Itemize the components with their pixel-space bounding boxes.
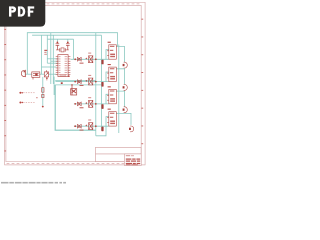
label D8 xyxy=(80,130,84,131)
sheet frame inner border xyxy=(6,6,141,162)
fuse F4 xyxy=(129,126,134,132)
wire ground loop pair stub xyxy=(53,77,55,96)
frame ruler tick dots left xyxy=(4,29,6,151)
node stray tick xyxy=(36,96,37,99)
caption text below page xyxy=(1,182,66,184)
resistor R3 under IC xyxy=(61,82,63,84)
resistor R11 gate xyxy=(101,127,103,132)
label T2 xyxy=(88,75,91,76)
wire preamp to IC xyxy=(42,66,57,68)
wire vcc rail vertical 1 xyxy=(95,33,97,136)
label D6 xyxy=(80,85,84,86)
label T4 xyxy=(88,120,91,121)
wire left drop 5 xyxy=(52,35,54,84)
junction dot J6 xyxy=(95,103,97,105)
node junction dots under IC xyxy=(68,75,70,77)
wire channel 4 xyxy=(74,125,109,127)
junction dot J2 xyxy=(95,58,97,60)
label D5 xyxy=(80,63,84,64)
triac T3 xyxy=(89,100,93,107)
triac T2 xyxy=(89,78,93,85)
capacitor C2 xyxy=(66,44,70,50)
IC U1 pins right xyxy=(68,57,70,75)
label T1 xyxy=(88,53,91,54)
label D7 xyxy=(80,107,84,108)
resistor R2 xyxy=(42,94,44,97)
wire mic link 2 xyxy=(40,73,45,75)
connector K1 xyxy=(107,42,116,59)
node dashed net label NET1 xyxy=(19,92,35,94)
capacitor C3 polarized under IC xyxy=(71,85,77,95)
wire under-ic bus row a xyxy=(55,80,96,82)
wire rail through outputs xyxy=(118,45,120,134)
capacitor C2 junction xyxy=(67,42,69,44)
title block text rows xyxy=(126,155,140,165)
IC U1 pins left xyxy=(56,57,58,75)
fuse F2 xyxy=(123,85,128,91)
wire left drop 3 xyxy=(46,35,48,63)
junction dot J4 xyxy=(95,81,97,83)
node drop end dot xyxy=(42,106,44,108)
junction dot J1 xyxy=(74,58,76,60)
wire crystal to ch1 xyxy=(73,39,75,59)
wire ground loop left xyxy=(55,85,96,130)
diac D8 xyxy=(77,124,81,128)
wire channel 2 xyxy=(56,81,109,83)
sheet frame outer border xyxy=(5,2,146,165)
title block outline xyxy=(96,147,142,161)
connector K4 xyxy=(107,109,116,127)
wire mic link 3 xyxy=(49,73,57,75)
wire ic left pin stubs xyxy=(47,58,58,60)
capacitor C1 junction xyxy=(57,42,59,44)
junction dot J3 xyxy=(74,81,76,83)
fuse F1 xyxy=(123,62,128,68)
wire out loop 2 xyxy=(116,69,124,85)
connector K3 xyxy=(107,86,116,104)
wire out loop 4 xyxy=(116,113,131,125)
junction dot J8 xyxy=(95,125,97,127)
crystal Q1 xyxy=(56,48,69,52)
wire mic link 1 xyxy=(26,73,32,75)
microphone MK1 xyxy=(21,70,25,77)
input transformer T1 xyxy=(32,72,40,80)
frame ruler tick dots right xyxy=(142,19,144,145)
resistor R1 xyxy=(42,88,44,93)
wire bottom link xyxy=(96,126,106,136)
IC U1 body xyxy=(58,55,68,77)
triac T1 xyxy=(89,56,93,63)
IC U1 inner pin labels xyxy=(59,56,68,76)
IC U1 ref label xyxy=(44,50,47,51)
diac D6 xyxy=(77,80,81,84)
wire channel 1 xyxy=(71,58,109,60)
wire top bus A xyxy=(27,33,117,74)
resistor R9 gate xyxy=(101,82,103,87)
node trimpot wiper stub xyxy=(46,77,48,81)
wire vcc rail vertical 2 xyxy=(101,35,103,130)
junction dot J5 xyxy=(74,103,76,105)
title block document field xyxy=(124,154,141,166)
wire crystal top xyxy=(48,38,74,40)
wire ic pin1 up xyxy=(72,58,74,60)
connector K2 xyxy=(107,64,116,82)
PDF badge xyxy=(0,0,45,27)
diac D5 xyxy=(77,57,81,61)
wire left drop 1 xyxy=(41,35,43,74)
wire channel 3 xyxy=(74,103,109,105)
wire under-ic bus row b xyxy=(55,84,101,86)
fuse F3 xyxy=(123,107,128,113)
diac D7 xyxy=(77,102,81,106)
wire out loop 3 xyxy=(116,91,124,107)
resistor R8 gate xyxy=(101,60,103,65)
wire top bus B xyxy=(32,34,101,36)
node dashed net label NET2 xyxy=(19,102,35,104)
triac T4 xyxy=(89,123,93,130)
wire xtal cap stubs xyxy=(56,39,58,42)
frame ruler dashed midline bottom xyxy=(7,162,142,164)
junction dot J7 xyxy=(74,125,76,127)
wire left drop 2 xyxy=(42,77,44,106)
capacitor C1 xyxy=(56,44,60,50)
wire out loop 1 xyxy=(116,47,124,63)
trimpot R12 xyxy=(44,70,48,77)
resistor R10 gate xyxy=(101,104,103,109)
wire left drop 4 xyxy=(50,33,52,84)
label T3 xyxy=(88,97,91,98)
frame ruler dashed midline top xyxy=(7,3,142,5)
